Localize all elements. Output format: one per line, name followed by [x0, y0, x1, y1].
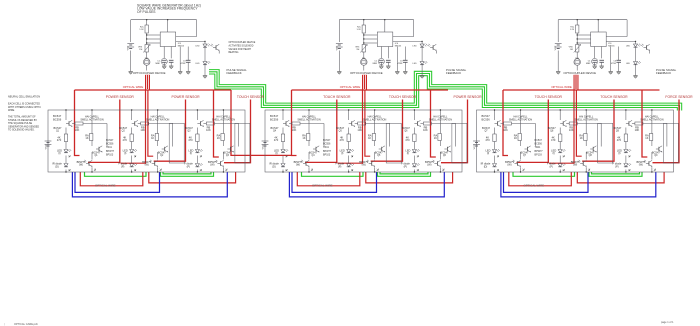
transistor Q5b (BC547) cell 5: [381, 147, 383, 151]
svg-text:BP103: BP103: [323, 153, 331, 156]
power battery VCC oscillator 3: [557, 20, 559, 42]
svg-text:OPTOCOUPLED DEVICE: OPTOCOUPLED DEVICE: [229, 42, 256, 44]
svg-text:1K: 1K: [580, 136, 583, 140]
svg-text:(W): (W): [296, 162, 300, 166]
svg-text:(l): (l): [618, 151, 620, 155]
svg-text:OPTICAL WIRE: OPTICAL WIRE: [524, 184, 545, 188]
svg-text:SMELL ACTIVATION: SMELL ACTIVATION: [80, 118, 103, 121]
resistor 4K7 cell 2: [130, 134, 133, 142]
wire blue link cell1-cell3 (bottom): [72, 172, 227, 197]
transistor Q6b (BC547) cell 6: [446, 147, 448, 151]
transistor Q9a (BC547) cell 9: [628, 121, 630, 125]
resistor RB 10K cell 9: [635, 122, 643, 125]
svg-text:470: 470: [188, 138, 193, 142]
capacitor C2 oscillator 2: [386, 59, 391, 61]
timer IC NE555 oscillator 3: [591, 32, 607, 47]
svg-text:(P): (P): [615, 164, 619, 168]
ground oscillator 1 left: [129, 71, 133, 73]
svg-text:OPTICAL WIRE: OPTICAL WIRE: [340, 85, 361, 89]
transistor Q5a (BC547) cell 5: [351, 121, 353, 125]
svg-text:(l): (l): [553, 151, 555, 155]
svg-text:BC547: BC547: [521, 151, 529, 155]
optocoupler LED lamp R6b oscillator 1: [143, 59, 150, 66]
svg-text:BC547: BC547: [375, 151, 383, 155]
svg-text:BPW77: BPW77: [106, 150, 115, 153]
ground LED chain oscillator 1: [203, 75, 207, 77]
svg-text:BC547: BC547: [482, 126, 490, 130]
svg-text:BC547: BC547: [223, 151, 231, 155]
svg-text:10K: 10K: [206, 128, 211, 132]
LED indicator cell 1: [64, 150, 68, 153]
svg-text:FEEDBACK: FEEDBACK: [446, 71, 461, 75]
svg-text:FEEDBACK: FEEDBACK: [227, 71, 242, 75]
wire red link cell4-cell5 (bottom): [297, 172, 360, 186]
svg-text:BC547: BC547: [652, 151, 660, 155]
resistor RB 10K cell 4: [292, 122, 300, 125]
phototransistor BPW77 cell 9: [648, 161, 650, 165]
wire red drop d2 group 1 (sensor 1): [88, 100, 120, 163]
LED indicator cell 9: [624, 150, 628, 153]
photodiode cell 5: [347, 164, 351, 167]
svg-text:10K: 10K: [569, 128, 574, 132]
wire red optical bus group 3 top horizontal: [503, 89, 660, 91]
resistor RA 1K cell 4: [307, 134, 310, 141]
grounds oscillator 3 bottom: [593, 65, 597, 67]
svg-text:MBF: MBF: [373, 63, 378, 65]
svg-text:470: 470: [617, 138, 622, 142]
svg-text:TOUCH SENSOR: TOUCH SENSOR: [389, 95, 417, 99]
svg-text:OPTICAL WIRE: OPTICAL WIRE: [95, 184, 116, 188]
svg-text:BC547: BC547: [440, 151, 448, 155]
oscillator 2 top rail: [339, 19, 413, 21]
resistor RA 1K cell 5: [372, 134, 375, 141]
svg-text:BC556: BC556: [270, 118, 279, 122]
wire red drop d6 group 1 (sensor 3): [224, 100, 251, 163]
power battery VCC oscillator 2: [338, 20, 340, 42]
phototransistor BPW77 cell 8: [582, 161, 584, 165]
resistor RB 10K cell 5: [358, 122, 366, 125]
potentiometer VR6 1M oscillator 1: [145, 45, 148, 53]
wire green link cell1-cell2 (bottom): [85, 172, 147, 176]
LED indicator cell 4: [281, 150, 285, 153]
resistor RA 1K cell 6: [438, 134, 441, 141]
resistor RB 10K cell 3: [206, 122, 214, 125]
svg-text:SMELL ACTIVATION: SMELL ACTIVATION: [509, 118, 532, 121]
transistor Q8a (BC547) cell 8: [562, 121, 564, 125]
svg-text:TOUCH SENSOR: TOUCH SENSOR: [237, 95, 265, 99]
svg-text:(D): (D): [272, 164, 276, 168]
phototransistor BPW77 cell 7: [517, 161, 519, 165]
capacitor C3 47NF oscillator 3: [618, 47, 620, 61]
svg-text:ACTIVATES SOLENOID: ACTIVATES SOLENOID: [229, 44, 254, 47]
svg-text:NE555: NE555: [178, 46, 185, 48]
svg-text:BC547: BC547: [92, 151, 100, 155]
power battery VCC group 2: [262, 140, 269, 142]
wire red link cell5-cell6 (bottom): [366, 172, 453, 183]
svg-text:BPW77: BPW77: [535, 150, 544, 153]
resistor 4K7 cell 9: [624, 134, 627, 142]
svg-text:(W): (W): [573, 162, 577, 166]
transistor Q1b (BC547) cell 1: [98, 147, 100, 151]
svg-text:BC547: BC547: [482, 114, 491, 118]
resistor RA 1K cell 2: [155, 134, 158, 141]
wire red drop d1 group 1: [75, 90, 80, 156]
phototransistor BPW77 cell 5: [371, 161, 373, 165]
svg-text:1.2K: 1.2K: [357, 29, 362, 31]
svg-text:page 1 of 1: page 1 of 1: [661, 321, 674, 324]
resistor RB 10K cell 1: [75, 122, 83, 125]
LED chain oscillator 3: [635, 42, 637, 45]
resistor 4K7 cell 3: [196, 134, 199, 142]
transistor Q7b (BC547) cell 7: [527, 147, 529, 151]
svg-text:OPTICAL CARE.pcb: OPTICAL CARE.pcb: [14, 322, 38, 326]
svg-text:SMELL ACTIVATION: SMELL ACTIVATION: [146, 118, 169, 121]
transistor Q2b (BC547) cell 2: [164, 147, 166, 151]
svg-text:(W): (W): [79, 162, 83, 166]
photodiode cell 6: [412, 164, 416, 167]
svg-text:OPTICAL WIRE: OPTICAL WIRE: [123, 85, 144, 89]
wire red link cell1-cell2 (bottom): [80, 172, 143, 186]
svg-text:BC547: BC547: [548, 126, 556, 130]
resistor RA 1K cell 9: [649, 134, 652, 141]
photodiode cell 9: [624, 164, 628, 167]
phototransistor BPW77 cell 4: [305, 161, 307, 165]
capacitor C1 oscillator 1: [161, 58, 167, 64]
svg-text:VCC: VCC: [474, 144, 476, 149]
svg-text:(W): (W): [145, 162, 149, 166]
svg-text:LED: LED: [626, 46, 631, 48]
power battery VCC group 1: [45, 140, 52, 142]
capacitor C3 47NF oscillator 2: [404, 47, 406, 61]
svg-text:VALVES FOR HEART: VALVES FOR HEART: [229, 48, 252, 51]
svg-text:OPTOCOUPLED DEVICE: OPTOCOUPLED DEVICE: [350, 71, 383, 75]
wire green link cell4-cell5 (bottom): [302, 172, 364, 176]
power battery VCC oscillator 1: [130, 20, 132, 42]
svg-text:NE555: NE555: [608, 46, 615, 48]
phototransistor BPW77 cell 1: [88, 161, 90, 165]
svg-text:POWER SENSOR: POWER SENSOR: [453, 95, 482, 99]
power battery VCC group 3: [473, 140, 480, 142]
timer IC NE555 oscillator 1: [160, 32, 176, 47]
capacitor C1 oscillator 2: [378, 58, 384, 64]
wire red link cell7-cell8 (bottom): [509, 172, 572, 186]
resistor R2a 1.2K oscillator 3: [576, 20, 578, 25]
resistor 4K7 cell 5: [347, 134, 350, 142]
node cell 9 internal wires: [625, 110, 627, 120]
node cell band frame group 3: [477, 110, 674, 172]
transistor Q8b (BC547) cell 8: [592, 147, 594, 151]
svg-text:47NF: 47NF: [611, 63, 617, 65]
wire red pair from oscillator group 3: [549, 90, 574, 163]
wire red drop d6 group 3 (sensor 3): [653, 100, 680, 163]
svg-text:1M: 1M: [570, 49, 573, 51]
svg-text:OPTICAL WIRE: OPTICAL WIRE: [312, 184, 333, 188]
svg-text:(W): (W): [427, 162, 431, 166]
wire red triple from optocoupler of oscillator 3: [574, 75, 579, 90]
wire red drop d4 group 1 (sensor 2): [154, 100, 186, 162]
grounds oscillator 2 bottom: [379, 65, 383, 67]
node cell 1 internal wires: [65, 110, 67, 120]
wire blue link cell4-cell5 (bottom): [292, 172, 377, 192]
grounds oscillator 1 bottom: [162, 65, 166, 67]
capacitor C2 oscillator 3: [599, 59, 604, 61]
svg-text:VCC: VCC: [128, 45, 130, 50]
svg-text:1K: 1K: [645, 136, 648, 140]
node cell 9 right sub-circuit box: [663, 123, 678, 163]
wire red triple from optocoupler of oscillator 1: [145, 75, 150, 90]
svg-text:BC547: BC547: [402, 126, 410, 130]
wire red corner drop at end of bus group 1 and bridge to group 2: [231, 90, 292, 155]
node cell 6 right sub-circuit box: [452, 123, 467, 163]
svg-text:1K: 1K: [302, 136, 305, 140]
svg-text:470: 470: [123, 138, 128, 142]
wire red drop d1 group 3: [503, 90, 508, 156]
svg-text:LED: LED: [195, 63, 200, 65]
LED indicator cell 5: [347, 150, 351, 153]
svg-text:47NF: 47NF: [180, 63, 186, 65]
wire red drop d5 group 3: [642, 90, 647, 157]
svg-text:OPTOCOUPLED DEVICE: OPTOCOUPLED DEVICE: [563, 71, 596, 75]
LED chain oscillator 1: [204, 42, 206, 45]
svg-text:NE555: NE555: [395, 46, 402, 48]
svg-text:FEEDBACK: FEEDBACK: [656, 71, 671, 75]
wire red pair from oscillator group 2: [338, 90, 363, 163]
wire blue link cell7-cell8 (bottom): [504, 172, 589, 192]
node cell band frame group 1: [48, 110, 245, 172]
transistor Q4a (BC547) cell 4: [285, 121, 287, 125]
svg-text:TOUCH SENSOR: TOUCH SENSOR: [535, 95, 563, 99]
node cell 2 right sub-circuit box: [169, 123, 184, 163]
svg-text:10K: 10K: [75, 128, 80, 132]
ground oscillator 2 left: [337, 71, 341, 73]
potentiometer VR6 1M oscillator 3: [576, 45, 579, 53]
node cell band frame group 2: [265, 110, 462, 172]
svg-text:BC547: BC547: [270, 114, 279, 118]
wire green link cell2-cell3 (bottom, 2 strands): [161, 172, 214, 176]
svg-text:1K: 1K: [85, 136, 88, 140]
wire red drop d4 group 3 (sensor 2): [582, 100, 614, 162]
svg-text:(D): (D): [55, 164, 59, 168]
svg-text:BC547: BC547: [158, 151, 166, 155]
wire blue link cell1-cell2 (bottom): [75, 172, 160, 192]
svg-text:1K: 1K: [434, 136, 437, 140]
svg-text:BC556: BC556: [482, 118, 491, 122]
svg-text:POWER SENSOR: POWER SENSOR: [171, 95, 200, 99]
svg-text:VCC: VCC: [336, 45, 338, 50]
wire red pair from oscillator group 1: [121, 90, 146, 163]
transistor Q3a (BC547) cell 3: [199, 121, 201, 125]
resistor RB 10K cell 2: [141, 122, 149, 125]
svg-text:470: 470: [551, 138, 556, 142]
svg-text:10K: 10K: [292, 128, 297, 132]
svg-text:VCC: VCC: [262, 144, 264, 149]
svg-text:SMELL ACTIVATION: SMELL ACTIVATION: [212, 118, 235, 121]
svg-text:BC547: BC547: [309, 151, 317, 155]
resistor RB 10K cell 8: [569, 122, 577, 125]
wire red triple from optocoupler of oscillator 2: [362, 75, 367, 90]
svg-text:SMELL ACTIVATION: SMELL ACTIVATION: [640, 118, 663, 121]
svg-text:BC547: BC547: [271, 126, 279, 130]
wire red drop d2 group 2 (sensor 1): [305, 100, 337, 163]
svg-text:(l): (l): [124, 151, 126, 155]
svg-text:1M: 1M: [356, 49, 359, 51]
resistor RA 1K cell 8: [584, 134, 587, 141]
ground oscillator 3 left: [556, 71, 560, 73]
wire red drop d2 group 3 (sensor 1): [517, 100, 549, 163]
svg-text:OPTICAL WIRE: OPTICAL WIRE: [551, 85, 572, 89]
resistor RA 1K cell 3: [221, 134, 224, 141]
svg-text:TOUCH SENSOR: TOUCH SENSOR: [600, 95, 628, 99]
svg-text:(P): (P): [187, 164, 191, 168]
svg-text:BC547: BC547: [586, 151, 594, 155]
resistor 4K7 cell 1: [64, 134, 67, 142]
svg-text:(W): (W): [507, 162, 511, 166]
wire red drop d5 group 2: [431, 90, 436, 157]
svg-text:SMELL ACTIVATION: SMELL ACTIVATION: [297, 118, 320, 121]
svg-text:VCC: VCC: [45, 144, 47, 149]
LED chain oscillator 2: [421, 42, 423, 45]
node cell 6 internal wires: [413, 110, 415, 120]
svg-text:BP103: BP103: [106, 153, 114, 156]
resistor RB 10K cell 7: [504, 122, 512, 125]
svg-text:10K: 10K: [357, 128, 362, 132]
svg-text:470: 470: [57, 138, 62, 142]
wire red link cell8-cell9 (bottom): [577, 172, 664, 183]
wire blue link cell7-cell9 (bottom): [501, 172, 656, 197]
photodiode cell 3: [195, 164, 199, 167]
transistor Q7a (BC547) cell 7: [497, 121, 499, 125]
ground LED chain oscillator 3: [633, 75, 637, 77]
svg-text:VCC: VCC: [555, 45, 557, 50]
resistor R2a 1.2K oscillator 1: [146, 20, 148, 25]
svg-text:(P): (P): [121, 164, 125, 168]
wire optical-fiber bundle (green) from optocoupler U1 output across groups: [209, 72, 680, 111]
svg-text:(l): (l): [58, 151, 60, 155]
svg-text:LED: LED: [413, 46, 418, 48]
svg-text:10K: 10K: [423, 128, 428, 132]
svg-text:BPW77: BPW77: [323, 150, 332, 153]
svg-text:SMELL ACTIVATION: SMELL ACTIVATION: [575, 118, 598, 121]
photodiode cell 1: [64, 164, 68, 167]
svg-text:BC547: BC547: [336, 126, 344, 130]
resistor RA 1K cell 7: [518, 134, 521, 141]
wire red link cell2-cell3 (bottom): [149, 172, 236, 183]
timer IC NE555 oscillator 2: [377, 32, 393, 47]
svg-text:OPTOCOUPLED DEVICE: OPTOCOUPLED DEVICE: [133, 71, 166, 75]
node cell 3 right sub-circuit box: [235, 123, 250, 163]
oscillator 1 top rail: [131, 19, 197, 21]
svg-text:(l): (l): [341, 151, 343, 155]
wire red optical bus group 2 top horizontal: [292, 89, 449, 91]
svg-text:1M: 1M: [139, 49, 142, 51]
capacitor C2 oscillator 1: [169, 59, 174, 61]
svg-text:1K: 1K: [217, 136, 220, 140]
LED indicator cell 6: [412, 150, 416, 153]
node cell 7 internal wires: [494, 110, 496, 120]
svg-text:470: 470: [485, 138, 490, 142]
svg-text:1K: 1K: [368, 136, 371, 140]
wire red drop d4 group 2 (sensor 2): [371, 100, 403, 162]
wire red drop d1 group 2: [292, 90, 297, 156]
svg-text:(l): (l): [190, 151, 192, 155]
resistor 4K7 cell 6: [413, 134, 416, 142]
resistor RA 1K cell 1: [90, 134, 93, 141]
phototransistor BPW77 cell 2: [154, 161, 156, 165]
oscillator 3 top rail: [558, 19, 627, 21]
phototransistor BPW77 cell 3: [219, 161, 221, 165]
wire red drop d5 group 1: [214, 90, 219, 157]
wire red optical bus group 1 top horizontal: [75, 89, 232, 91]
node cell 5 right sub-circuit box: [386, 123, 401, 163]
svg-text:BC556: BC556: [53, 118, 62, 122]
svg-text:TOUCH SENSOR: TOUCH SENSOR: [323, 95, 351, 99]
svg-text:BC547: BC547: [119, 126, 127, 130]
optocoupler phototransistor oscillator 2: [432, 45, 434, 49]
svg-text:47NF: 47NF: [398, 63, 404, 65]
optocoupler LED lamp R6b oscillator 2: [361, 59, 368, 66]
svg-text:LED: LED: [626, 63, 631, 65]
wire blue link cell4-cell6 (bottom): [289, 172, 444, 197]
svg-text:470: 470: [405, 138, 410, 142]
svg-text:FORCE SENSOR: FORCE SENSOR: [665, 95, 693, 99]
svg-text:SMELL ACTIVATION: SMELL ACTIVATION: [429, 118, 452, 121]
phototransistor BPW77 cell 6: [436, 161, 438, 165]
optocoupler phototransistor oscillator 3: [646, 45, 648, 49]
node cell 5 internal wires: [348, 110, 350, 120]
svg-text:10K: 10K: [503, 128, 508, 132]
ground LED chain oscillator 2: [420, 75, 424, 77]
svg-text:BC547: BC547: [53, 114, 62, 118]
svg-text:SMELL ACTIVATION: SMELL ACTIVATION: [363, 118, 386, 121]
transistor Q1a (BC547) cell 1: [68, 121, 70, 125]
LED indicator cell 7: [493, 150, 497, 153]
svg-text:1.2K: 1.2K: [570, 29, 575, 31]
node cell 8 right sub-circuit box: [598, 123, 613, 163]
svg-text:1K: 1K: [514, 136, 517, 140]
svg-text:POWER SENSOR: POWER SENSOR: [106, 95, 135, 99]
resistor 4K7 cell 8: [559, 134, 562, 142]
photodiode cell 4: [281, 164, 285, 167]
photodiode cell 7: [493, 164, 497, 167]
svg-text:BC547: BC547: [185, 126, 193, 130]
svg-text:(l): (l): [275, 151, 277, 155]
svg-text:OF PULSES: OF PULSES: [137, 10, 156, 14]
svg-text:(W): (W): [210, 162, 214, 166]
svg-text:BEATING: BEATING: [229, 51, 239, 54]
svg-text:(D): (D): [484, 164, 488, 168]
svg-text:MBF: MBF: [156, 63, 161, 65]
svg-text:(l): (l): [407, 151, 409, 155]
transistor Q6a (BC547) cell 6: [416, 121, 418, 125]
LED indicator cell 8: [558, 150, 562, 153]
svg-text:(W): (W): [362, 162, 366, 166]
svg-text:BC547: BC547: [613, 126, 621, 130]
wire red drop d6 group 2 (sensor 3): [441, 100, 468, 163]
svg-text:(l): (l): [487, 151, 489, 155]
svg-text:NEURAL CELL EMULATION: NEURAL CELL EMULATION: [8, 96, 40, 99]
svg-text:10K: 10K: [635, 128, 640, 132]
optocoupler phototransistor oscillator 1: [215, 45, 217, 49]
svg-text:470: 470: [340, 138, 345, 142]
svg-text:LED: LED: [195, 46, 200, 48]
wire green link cell8-cell9 (bottom, 2 strands): [589, 172, 642, 176]
svg-text:1.2K: 1.2K: [139, 29, 144, 31]
svg-text:(P): (P): [404, 164, 408, 168]
photodiode cell 2: [130, 164, 134, 167]
svg-text:LED: LED: [413, 63, 418, 65]
capacitor C3 47NF oscillator 1: [187, 47, 189, 61]
resistor RB 10K cell 6: [423, 122, 431, 125]
